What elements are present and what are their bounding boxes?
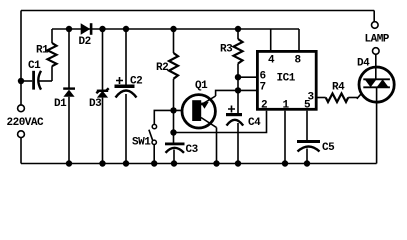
wire pin4 drop (270, 29, 272, 51)
diode D2 (81, 23, 93, 35)
wire gate diagonal (357, 90, 364, 98)
svg-text:C2: C2 (130, 76, 142, 88)
op-amp IC1 box (257, 51, 316, 109)
wire pin7 (238, 89, 257, 91)
node C5 bottom (304, 160, 310, 166)
wire collector to pins67 (216, 90, 238, 96)
wire pin6 (238, 76, 257, 78)
svg-text:R2: R2 (156, 62, 168, 74)
wire pin5 drop (306, 111, 308, 140)
switch SW1 (149, 124, 157, 163)
svg-text:LAMP: LAMP (365, 34, 390, 46)
triac D4 (359, 55, 394, 104)
node C3 bottom (171, 160, 177, 166)
capacitor C1 (21, 71, 52, 90)
wire pin3 (316, 97, 326, 99)
wire left rail lower (20, 138, 22, 164)
svg-text:4: 4 (268, 55, 275, 67)
node C2 top (123, 26, 129, 32)
node emitter bottom (213, 160, 219, 166)
transistor Q1 (182, 95, 217, 128)
diode D1 (63, 29, 75, 164)
capacitor C3 (165, 143, 185, 164)
svg-text:2: 2 (261, 100, 267, 112)
resistor R3 (234, 29, 243, 113)
node C3 top (170, 129, 176, 135)
terminal lamp top (372, 22, 379, 29)
wire left rail upper (20, 11, 22, 105)
node 220vac tap (18, 78, 24, 84)
label C2 plus (116, 77, 123, 84)
capacitor C2 (115, 29, 137, 164)
svg-text:C3: C3 (186, 144, 199, 156)
zener D3 (96, 29, 108, 164)
svg-text:C1: C1 (28, 60, 41, 72)
wire pin1 drop (284, 111, 286, 164)
svg-text:220VAC: 220VAC (7, 117, 45, 129)
wire pin8 drop (298, 29, 300, 51)
resistor R4 (326, 94, 358, 103)
resistor R1 (48, 29, 57, 81)
svg-text:5: 5 (304, 100, 311, 112)
svg-text:D1: D1 (54, 98, 67, 110)
label C4 plus (228, 106, 235, 113)
node R2 top (170, 26, 176, 32)
wire emitter down (216, 128, 218, 164)
svg-text:1: 1 (283, 100, 290, 112)
svg-text:D2: D2 (79, 36, 91, 48)
wire SW1 top (154, 110, 173, 124)
svg-text:R4: R4 (332, 82, 345, 94)
node pin6 junction (235, 74, 241, 80)
svg-text:IC1: IC1 (277, 73, 296, 85)
node base junction (170, 107, 176, 113)
terminal 220vac top (18, 105, 25, 112)
svg-text:R3: R3 (220, 44, 233, 56)
wire dc rail (52, 28, 299, 30)
node pin1 bottom (282, 160, 288, 166)
svg-text:7: 7 (260, 82, 266, 94)
wire pin2 (174, 111, 267, 133)
svg-text:Q1: Q1 (195, 80, 208, 92)
terminal lamp bottom (373, 48, 380, 55)
svg-text:D4: D4 (357, 58, 370, 70)
node R3 top (235, 26, 241, 32)
svg-text:8: 8 (295, 55, 302, 67)
capacitor C5 (297, 140, 320, 164)
svg-text:R1: R1 (36, 45, 49, 57)
capacitor C4 (226, 113, 243, 164)
wire bottom rail (21, 163, 377, 165)
wire right riser (376, 103, 378, 163)
node C2 bottom (123, 160, 129, 166)
resistor R2 (169, 29, 178, 143)
wire base (174, 109, 195, 111)
svg-text:C4: C4 (248, 117, 261, 129)
svg-text:SW1: SW1 (132, 137, 151, 149)
node C4 bottom (235, 160, 241, 166)
node D1 bottom (66, 160, 72, 166)
svg-text:D3: D3 (89, 98, 102, 110)
node D3 bottom (99, 160, 105, 166)
node pin7 junction (235, 87, 241, 93)
node D3 top (99, 26, 105, 32)
wire lamp top drop (373, 11, 375, 22)
wire top rail (21, 10, 374, 12)
node SW1 bottom (151, 160, 157, 166)
node D1 top (66, 26, 72, 32)
svg-text:C5: C5 (322, 142, 335, 154)
terminal 220vac bottom (18, 131, 25, 138)
